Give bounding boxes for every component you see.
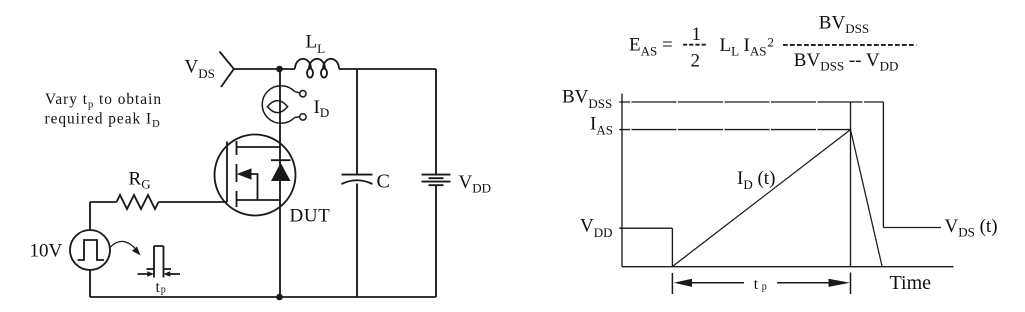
svg-text:Time: Time bbox=[890, 272, 932, 294]
svg-text:BVDSS -- VDD: BVDSS -- VDD bbox=[794, 50, 899, 74]
svg-text:ID: ID bbox=[314, 97, 330, 120]
svg-text:BVDSS: BVDSS bbox=[819, 12, 869, 36]
svg-text:LL: LL bbox=[720, 35, 740, 59]
svg-text:required peak ID: required peak ID bbox=[45, 111, 161, 131]
svg-text:2: 2 bbox=[768, 35, 775, 50]
svg-text:DUT: DUT bbox=[290, 206, 331, 227]
svg-text:RG: RG bbox=[129, 169, 151, 192]
svg-text:LL: LL bbox=[306, 32, 326, 57]
svg-text:1: 1 bbox=[692, 24, 702, 45]
svg-text:IAS: IAS bbox=[590, 114, 613, 138]
svg-text:VDS (t): VDS (t) bbox=[945, 216, 998, 240]
svg-text:p: p bbox=[161, 284, 166, 295]
svg-text:VDD: VDD bbox=[459, 172, 492, 196]
svg-text:VDD: VDD bbox=[580, 216, 613, 241]
svg-text:EAS =: EAS = bbox=[629, 35, 673, 59]
svg-text:t: t bbox=[754, 276, 759, 293]
svg-text:10V: 10V bbox=[30, 241, 63, 262]
svg-text:ID (t): ID (t) bbox=[737, 168, 775, 192]
svg-text:2: 2 bbox=[691, 51, 701, 72]
svg-text:BVDSS: BVDSS bbox=[562, 87, 612, 112]
svg-text:Vary tp to obtain: Vary tp to obtain bbox=[45, 91, 162, 111]
svg-text:IAS: IAS bbox=[744, 35, 767, 59]
svg-text:p: p bbox=[762, 281, 767, 292]
svg-text:C: C bbox=[377, 171, 390, 193]
svg-text:VDS: VDS bbox=[185, 57, 215, 82]
